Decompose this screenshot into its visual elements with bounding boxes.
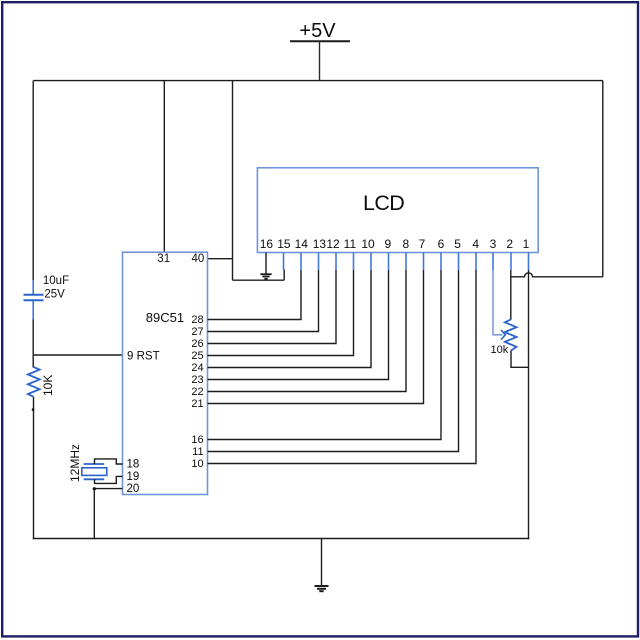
svg-text:16: 16 (191, 434, 203, 446)
wire: ground stem at bottom rail (321, 539, 323, 586)
svg-text:25: 25 (191, 350, 203, 362)
svg-text:9: 9 (384, 237, 391, 251)
wire: top +5V rail (33, 80, 603, 82)
wire: LCD pin 7 to 89C51 pin 21 (208, 270, 424, 404)
junction on left rail (32, 408, 35, 411)
svg-text:6: 6 (438, 237, 445, 251)
wire: +5V rail drop for pin 40 (232, 81, 234, 281)
wire: LCD pin 9 to 89C51 pin 23 (208, 270, 389, 380)
wire: LCD pin 1 down to ground rail (528, 270, 530, 539)
wire: LCD pin 14 to 89C51 pin 28 (208, 270, 302, 320)
svg-text:15: 15 (277, 237, 291, 251)
wire: left rail lower segment to ground rail (33, 397, 35, 540)
wire: LCD pin 4 to 89C51 pin 10 (208, 270, 477, 464)
svg-text:7: 7 (419, 237, 426, 251)
wire: LCD pin 12 stub (335, 253, 337, 271)
wire: +5V feed across to LCD pin 15 (233, 279, 285, 281)
svg-text:10: 10 (191, 458, 203, 470)
wire: 89C51 pin 20 to ground rail (94, 489, 122, 540)
wire: LCD pin 5 to 89C51 pin 11 (208, 270, 459, 452)
wire: LCD pin 3 stub (492, 253, 494, 271)
wire: LCD pin 11 stub (353, 253, 355, 271)
wire: wiper from LCD pin 3 (493, 270, 503, 335)
wire: LCD pin 4 stub (475, 253, 477, 271)
IC U1 89C51 body (123, 252, 208, 494)
potentiometer wiper arrowhead (501, 330, 505, 340)
wire: 89C51 pin 18 to crystal top plate (95, 459, 123, 464)
svg-text:27: 27 (191, 326, 203, 338)
wire: 89C51 pin 19 to crystal bottom plate (95, 476, 123, 483)
wire: LCD pin 8 stub (405, 253, 407, 271)
svg-text:28: 28 (191, 314, 203, 326)
wire: 89C51 pin 40 stub (208, 258, 234, 260)
wire: LCD pin 2 to right rail with hop over pin 1 wire (511, 273, 603, 277)
svg-text:16: 16 (260, 237, 274, 251)
svg-text:11: 11 (192, 446, 203, 458)
svg-text:89C51: 89C51 (146, 310, 184, 325)
wire: LCD pin 6 stub (440, 253, 442, 271)
wire: left rail upper segment (32, 81, 34, 281)
svg-text:10k: 10k (491, 344, 509, 356)
wire: 89C51 pin 31 to +5V rail (163, 81, 165, 253)
svg-text:10K: 10K (41, 375, 55, 396)
svg-text:9 RST: 9 RST (127, 350, 160, 362)
wire: LCD pin 14 stub (300, 253, 302, 271)
svg-text:LCD: LCD (363, 191, 404, 215)
wire: LCD pin 13 to 89C51 pin 27 (208, 270, 319, 332)
svg-text:20: 20 (127, 483, 140, 495)
wire: LCD pin 1 stub (528, 253, 530, 271)
wire: LCD pin 2 stub (510, 253, 512, 271)
svg-text:1: 1 (523, 237, 530, 251)
crystal X1 12MHz (82, 464, 107, 479)
svg-text:8: 8 (403, 237, 410, 251)
svg-text:40: 40 (192, 253, 205, 265)
wire: bottom ground rail (33, 538, 529, 540)
svg-text:24: 24 (191, 362, 203, 374)
svg-text:+5V: +5V (299, 20, 336, 42)
wire: LCD pin 6 to 89C51 pin 16 (208, 270, 442, 440)
wire: right +5V rail (602, 81, 604, 277)
svg-text:18: 18 (127, 459, 140, 471)
wire: LCD pin 10 to 89C51 pin 24 (208, 270, 372, 368)
wire: LCD pin 12 to 89C51 pin 26 (208, 270, 337, 344)
svg-text:23: 23 (191, 374, 203, 386)
svg-text:19: 19 (127, 471, 140, 483)
wire: LCD pin 13 stub (318, 253, 320, 271)
svg-text:14: 14 (295, 237, 309, 251)
ground at bottom rail (315, 586, 329, 591)
svg-text:12: 12 (326, 237, 340, 251)
svg-text:2: 2 (506, 237, 513, 251)
wire: LCD pin 11 to 89C51 pin 25 (208, 270, 354, 356)
wire: LCD pin 9 stub (388, 253, 390, 271)
wire: LCD pin 15 stub (283, 253, 285, 271)
svg-text:26: 26 (191, 338, 203, 350)
wire: LCD pin 10 stub (370, 253, 372, 271)
wire: potentiometer bottom to pin1 ground wire (511, 351, 529, 368)
svg-text:4: 4 (472, 237, 479, 251)
svg-text:10: 10 (361, 237, 375, 251)
wire: LCD pin 16 stub (265, 253, 267, 274)
svg-text:3: 3 (490, 237, 497, 251)
LCD module U2 body (257, 168, 538, 253)
capacitor C1 10uF 25V (24, 280, 44, 320)
ground at LCD pin 16 (260, 274, 271, 279)
svg-text:22: 22 (191, 386, 203, 398)
wire: left rail middle segment (32, 320, 34, 368)
potentiometer R2 10k element (505, 320, 517, 351)
svg-text:5: 5 (454, 237, 461, 251)
junction at pin 20 corner (93, 487, 96, 490)
wire: RST node to 89C51 pin 9 (33, 354, 123, 356)
svg-text:21: 21 (191, 398, 203, 410)
power symbol +5V (290, 20, 350, 81)
svg-text:31: 31 (157, 253, 170, 265)
svg-text:13: 13 (313, 237, 327, 251)
wire: LCD pin 5 stub (458, 253, 460, 271)
resistor R1 10K (28, 367, 40, 397)
svg-text:11: 11 (344, 237, 357, 251)
svg-text:25V: 25V (44, 288, 65, 300)
wire: LCD pin 7 stub (423, 253, 425, 271)
svg-text:10uF: 10uF (43, 275, 69, 287)
wire: riser to LCD pin 15 (283, 270, 285, 281)
svg-text:12MHz: 12MHz (68, 444, 82, 482)
wire: LCD pin 2 down to potentiometer top (510, 270, 512, 320)
wire: LCD pin 8 to 89C51 pin 22 (208, 270, 407, 392)
